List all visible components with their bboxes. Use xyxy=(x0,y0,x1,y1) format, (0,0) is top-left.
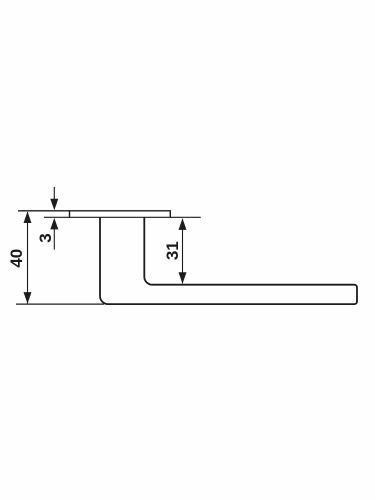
handle outline xyxy=(100,217,357,304)
dimension 40 top arrowhead xyxy=(24,212,32,224)
dimension 3 up arrowhead xyxy=(50,218,58,230)
svg-text:3: 3 xyxy=(36,233,55,242)
bottom extension line xyxy=(16,303,104,305)
svg-text:31: 31 xyxy=(163,241,182,260)
dimension 40 bottom arrowhead xyxy=(24,292,32,304)
svg-text:40: 40 xyxy=(7,249,26,268)
rosette plate xyxy=(70,211,171,218)
top reference extension line xyxy=(18,210,70,212)
door surface line xyxy=(44,216,201,218)
dimension 31 bottom arrowhead xyxy=(179,272,187,284)
dimension 31 line xyxy=(182,219,184,284)
dimension 3 upper line xyxy=(53,187,55,201)
dimension 3 lower line xyxy=(53,228,55,250)
dimension 3 down arrowhead xyxy=(50,199,58,211)
dimension 40 line xyxy=(27,212,29,303)
dimension 31 top arrowhead xyxy=(179,218,187,230)
